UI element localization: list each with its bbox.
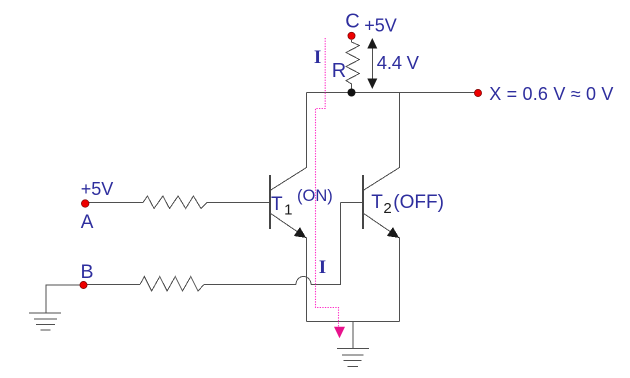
current arrow head: [334, 327, 345, 338]
svg-text:I: I: [314, 47, 321, 68]
node C dot: [348, 32, 355, 39]
label T1: [271, 194, 292, 219]
wire hop over T1 emitter: [296, 277, 311, 285]
svg-text:T1: T1: [271, 194, 292, 219]
label T2: [371, 192, 391, 217]
resistor RB: [140, 277, 204, 292]
current path I (magenta): [316, 38, 339, 327]
wire input A: [89, 202, 143, 204]
wire emitters to ground: [307, 321, 400, 323]
label C: [345, 10, 359, 32]
wire T2 collector riser: [363, 93, 400, 191]
wire T1 base lead: [208, 202, 269, 204]
wire T1 collector riser: [270, 93, 307, 191]
label +5V at C: [364, 15, 397, 35]
junction dot: [348, 89, 356, 97]
transistor T2 base bar: [362, 175, 364, 229]
label +5V at A: [81, 179, 114, 199]
svg-text:B: B: [81, 261, 94, 283]
label I top: [314, 47, 321, 68]
label (ON): [297, 187, 333, 205]
svg-text:A: A: [81, 212, 94, 233]
svg-text:+5V: +5V: [364, 15, 397, 35]
resistor R: [346, 40, 360, 93]
node X dot: [474, 89, 481, 96]
svg-text:C: C: [345, 10, 359, 32]
svg-text:I: I: [319, 257, 326, 278]
svg-text:R: R: [332, 60, 346, 82]
wire top rail node X: [307, 92, 479, 94]
wire B resistor to crossover hop: [204, 284, 296, 286]
node A dot: [81, 200, 89, 208]
wire T2 base lead: [341, 202, 363, 204]
svg-text:(ON): (ON): [297, 187, 333, 205]
svg-text:X = 0.6 V ≈ 0 V: X = 0.6 V ≈ 0 V: [489, 84, 613, 104]
label R: [332, 60, 346, 82]
wire input B right: [87, 284, 140, 286]
ground center: [337, 349, 369, 367]
node B dot: [80, 281, 87, 288]
transistor T1 base bar: [269, 175, 271, 229]
svg-text:4.4 V: 4.4 V: [377, 52, 420, 73]
label I bottom: [319, 257, 326, 278]
voltage arrow down head: [367, 79, 377, 90]
svg-text:T2: T2: [371, 192, 391, 217]
label B: [81, 261, 94, 283]
transistor T2 emitter arrow: [387, 227, 399, 238]
label A: [81, 212, 94, 233]
wire A resistor to T1 base: [207, 202, 208, 204]
label (OFF): [393, 192, 444, 213]
svg-text:+5V: +5V: [81, 179, 114, 199]
svg-text:(OFF): (OFF): [393, 192, 444, 213]
wire input B left to ground: [46, 285, 80, 313]
voltage arrow up head: [367, 38, 377, 49]
wire ground stem center: [352, 322, 354, 349]
label X = 0.6 V: [489, 84, 613, 104]
wire T1 emitter: [270, 213, 307, 322]
label 4.4 V: [377, 52, 420, 73]
voltage arrow 4.4V shaft: [371, 46, 373, 81]
wire hop to T2 base riser: [311, 203, 341, 285]
transistor T1 emitter arrow: [294, 227, 306, 238]
wire T2 emitter: [363, 213, 400, 322]
resistor RA: [143, 196, 207, 209]
ground left: [29, 313, 61, 330]
